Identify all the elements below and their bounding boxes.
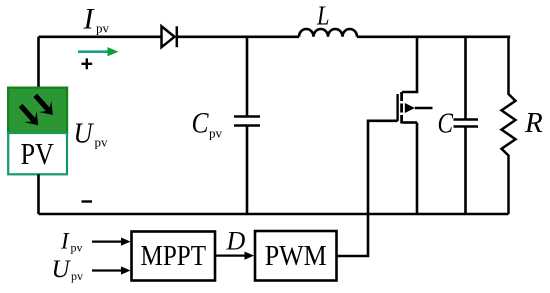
wire bottom rail (39, 213, 509, 216)
label Upv (bottom) (52, 256, 84, 283)
wire gate to PWM (337, 121, 398, 256)
wire PV bottom (37, 174, 40, 214)
arrow Ipv into MPPT (92, 238, 131, 246)
current arrow (green) (78, 47, 119, 56)
PV module (8, 88, 67, 175)
label Upv (left) (74, 118, 109, 150)
svg-text:pv: pv (96, 21, 110, 36)
arrow Upv into MPPT (92, 266, 131, 274)
MOSFET Q1 (398, 92, 433, 124)
label Ipv (bottom) (60, 229, 83, 255)
capacitor C branch wires (464, 37, 467, 214)
svg-text:C: C (438, 108, 454, 140)
irradiance arrow 1 (upper) (33, 94, 53, 115)
irradiance arrow 2 (lower) (19, 104, 39, 125)
svg-text:pv: pv (71, 241, 83, 255)
plus sign (82, 58, 93, 69)
arrow D into PWM (215, 252, 254, 260)
svg-text:pv: pv (71, 269, 83, 283)
label Ipv (top) (83, 3, 110, 36)
label L (316, 1, 329, 31)
svg-text:U: U (52, 256, 72, 283)
diode D1 (162, 26, 177, 47)
svg-text:D: D (226, 227, 246, 256)
label Cpv (192, 107, 223, 141)
svg-text:I: I (60, 229, 70, 254)
svg-text:U: U (74, 118, 95, 150)
wire source to bottom rail (416, 123, 419, 215)
wire drain branch (402, 37, 417, 92)
label R (524, 107, 543, 139)
block PWM (255, 231, 337, 281)
resistor R (502, 37, 516, 214)
svg-text:PWM: PWM (265, 240, 327, 272)
wire top-left segment (PV to diode) (39, 37, 162, 87)
label C (438, 108, 454, 140)
label D (226, 227, 246, 256)
svg-text:C: C (192, 107, 210, 140)
svg-text:MPPT: MPPT (141, 240, 207, 272)
wire diode to inductor (177, 35, 299, 38)
inductor L (299, 29, 357, 37)
minus sign (82, 200, 93, 202)
capacitor Cpv plates (234, 117, 260, 126)
wire inductor to top-right end (357, 35, 510, 38)
svg-text:R: R (524, 107, 543, 139)
svg-text:pv: pv (95, 135, 109, 150)
capacitor C plates (454, 120, 479, 127)
svg-text:L: L (316, 1, 329, 31)
block MPPT (132, 232, 216, 281)
capacitor Cpv branch wires (246, 37, 249, 214)
svg-text:PV: PV (20, 136, 54, 171)
svg-text:pv: pv (209, 126, 223, 141)
